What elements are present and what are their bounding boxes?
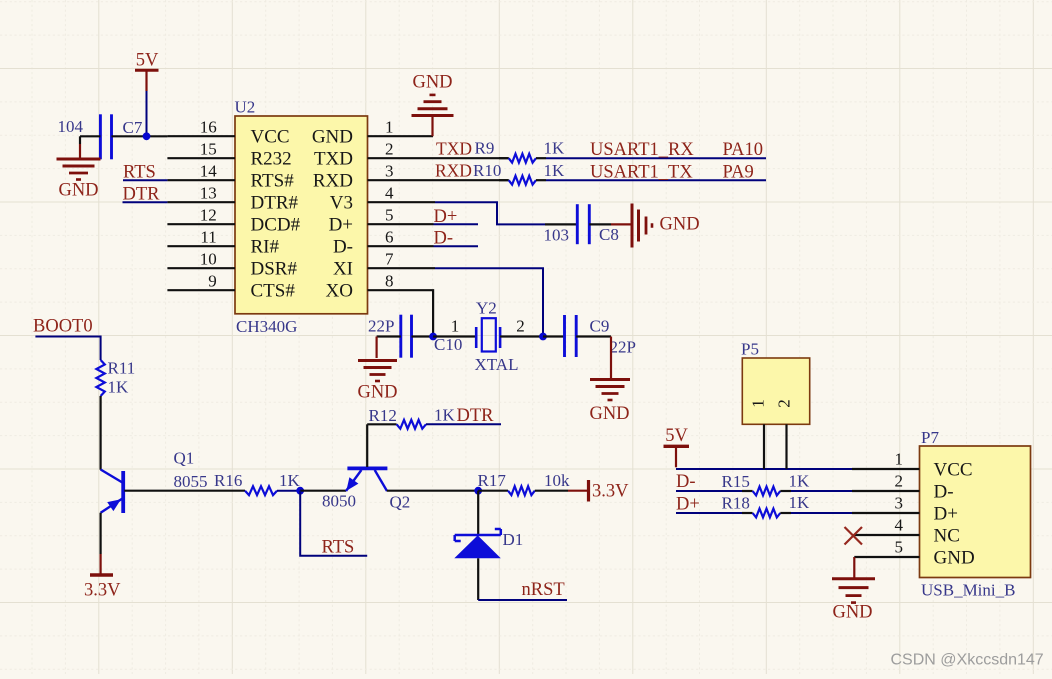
svg-text:R15: R15 (722, 472, 750, 491)
resistor R12 (369, 406, 456, 429)
wire D1 to nRST (478, 558, 567, 600)
svg-text:GND: GND (58, 181, 98, 201)
svg-text:2: 2 (385, 140, 394, 159)
svg-text:XTAL: XTAL (475, 355, 519, 374)
svg-text:P7: P7 (921, 428, 939, 447)
ground GND (left of C7) (57, 159, 101, 201)
svg-text:104: 104 (58, 117, 84, 136)
svg-text:Y2: Y2 (476, 299, 497, 318)
power 3.3V (bottom left) (84, 575, 121, 601)
svg-text:3: 3 (385, 162, 394, 181)
wire C7 to GND (79, 136, 81, 158)
svg-text:Q1: Q1 (174, 449, 195, 468)
svg-text:1: 1 (451, 317, 460, 336)
junction 5V/C7/U2 pin16 (143, 132, 151, 140)
power 5V (right) (664, 426, 690, 467)
svg-text:D1: D1 (503, 530, 524, 549)
svg-text:GND: GND (832, 603, 872, 623)
svg-text:D-: D- (333, 237, 353, 258)
svg-text:5: 5 (385, 206, 394, 225)
wire C10 to GND (376, 337, 378, 359)
svg-text:2: 2 (895, 472, 904, 491)
svg-text:9: 9 (208, 272, 217, 291)
svg-text:R16: R16 (214, 471, 242, 490)
svg-text:5: 5 (895, 538, 904, 557)
wire USART1_RX (R9 to PA10) (546, 157, 766, 159)
wire D- (434, 245, 479, 247)
P5 pin 2 (775, 399, 794, 469)
svg-text:D+: D+ (934, 504, 958, 525)
svg-text:3: 3 (895, 494, 904, 513)
svg-text:15: 15 (200, 140, 217, 159)
svg-text:8: 8 (385, 272, 394, 291)
capacitor C10 (368, 315, 462, 358)
svg-text:USB_Mini_B: USB_Mini_B (921, 581, 1015, 600)
wire RXD (U2 pin3 to R10) (435, 179, 509, 181)
svg-text:BOOT0: BOOT0 (33, 317, 93, 337)
svg-text:XI: XI (333, 259, 353, 280)
ground GND (below P7) (832, 579, 875, 623)
svg-text:D-: D- (934, 482, 954, 503)
transistor Q2 (322, 468, 410, 511)
resistor R9 (475, 139, 566, 163)
Y2 pin 1 (451, 317, 460, 336)
U2 pin 8 XO (326, 272, 433, 302)
svg-text:GND: GND (589, 404, 629, 424)
capacitor C7 (58, 114, 168, 159)
U2 pin 16 VCC (167, 118, 289, 148)
diode D1 zener (454, 491, 523, 559)
svg-text:103: 103 (544, 226, 570, 245)
wire USART1_TX (R10 to PA9) (546, 179, 766, 181)
P7 pin 1 VCC (852, 450, 973, 481)
wire R17 to 3.3V (535, 490, 588, 492)
svg-text:6: 6 (385, 228, 394, 247)
svg-text:CH340G: CH340G (236, 317, 297, 336)
net label D- (U2 pin6) (434, 229, 454, 249)
P7 pin 5 GND (854, 538, 974, 569)
svg-text:RXD: RXD (435, 161, 472, 181)
svg-text:TXD: TXD (314, 149, 353, 170)
svg-text:5V: 5V (136, 51, 159, 71)
svg-text:V3: V3 (330, 193, 353, 214)
svg-text:GND: GND (357, 383, 397, 403)
wire Q2 collector to R17 node (387, 490, 478, 492)
wire D+ to R18 (676, 512, 742, 514)
U2 pin 11 RI# (167, 228, 279, 258)
svg-text:RI#: RI# (251, 237, 280, 258)
net label D+ (right) (676, 495, 700, 515)
svg-text:D-: D- (676, 472, 696, 492)
svg-text:1: 1 (385, 118, 394, 137)
no-connect X (P7 pin 4) (845, 527, 863, 545)
net label RTS (U2 pin14) (123, 163, 156, 183)
U2 pin 6 D- (333, 228, 434, 258)
wire V3 to C8 (435, 202, 577, 224)
connector P7 body (920, 428, 1031, 600)
connector P5 body (741, 340, 810, 425)
resistor R17 (478, 471, 571, 495)
U2 pin 3 RXD (313, 162, 435, 192)
svg-text:1K: 1K (544, 161, 566, 180)
svg-text:VCC: VCC (934, 460, 973, 481)
resistor R18 (722, 493, 811, 517)
net label D+ (U2 pin5) (434, 207, 458, 227)
wire P7 GND (853, 557, 855, 578)
net label RTS (lower) (322, 538, 355, 558)
wire XI (U2 pin7 to crystal) (435, 268, 543, 336)
P7 pin 4 NC (854, 516, 960, 547)
wire C9 to GND (610, 337, 612, 380)
wire node to Q2 emitter (300, 490, 346, 492)
Y2 pin 2 (516, 317, 525, 336)
wire junction to C9 (543, 335, 565, 337)
U2 pin 10 DSR# (167, 250, 297, 280)
svg-text:Q2: Q2 (390, 493, 411, 512)
svg-text:CTS#: CTS# (251, 281, 296, 302)
wire R15 to P7 pin2 (791, 490, 852, 492)
ground GND (below C9) (589, 380, 630, 425)
net label D- (right) (676, 472, 696, 492)
wire C10 junction to crystal (433, 335, 476, 337)
svg-text:DTR#: DTR# (251, 193, 299, 214)
watermark (891, 652, 1044, 669)
svg-text:R18: R18 (722, 494, 750, 513)
ground GND (right of C8) (611, 204, 700, 248)
wire D- to R15 (676, 490, 742, 492)
svg-text:DCD#: DCD# (251, 215, 301, 236)
svg-text:PA10: PA10 (723, 140, 763, 160)
svg-text:1K: 1K (789, 493, 811, 512)
svg-text:GND: GND (934, 548, 975, 569)
svg-text:CSDN @Xkccsdn147: CSDN @Xkccsdn147 (891, 652, 1044, 669)
net label USART1_RX (590, 140, 694, 160)
transistor Q1 (101, 449, 208, 514)
U2 pin 1 GND (312, 118, 433, 148)
svg-text:3.3V: 3.3V (84, 581, 121, 601)
svg-text:1K: 1K (544, 139, 566, 158)
wire TXD (U2 pin2 to R9) (435, 157, 509, 159)
svg-text:12: 12 (200, 206, 217, 225)
wire 5V to C7 node (146, 91, 148, 136)
wire RTS drop (300, 491, 367, 556)
U2 pin 13 DTR# (167, 184, 298, 214)
junction R16/Q2/RTS (296, 487, 304, 495)
wire 5V to P7 pin1 (676, 468, 852, 470)
U2 pin 5 D+ (329, 206, 434, 236)
svg-text:GND: GND (660, 215, 700, 235)
svg-text:8050: 8050 (322, 492, 356, 511)
wire RTS (123, 179, 167, 181)
svg-text:R10: R10 (473, 161, 501, 180)
svg-text:R9: R9 (475, 139, 495, 158)
power 3.3V (right of R17) (589, 480, 630, 502)
wire Q1 emitter to 3.3V (99, 513, 101, 574)
net label BOOT0 (33, 317, 93, 337)
P7 pin 3 D+ (852, 494, 958, 525)
power 5V (top left) (135, 51, 159, 92)
wire Q1 base to R16 (124, 490, 245, 492)
resistor R15 (722, 472, 811, 496)
resistor R11 (96, 359, 135, 397)
svg-text:4: 4 (385, 184, 394, 203)
svg-text:C7: C7 (123, 118, 143, 137)
net label nRST (522, 580, 565, 600)
svg-text:10k: 10k (544, 471, 570, 490)
svg-text:TXD: TXD (436, 139, 472, 159)
U2 pin 4 V3 (330, 184, 435, 214)
crystal Y2 (475, 299, 519, 375)
ground GND (U2 pin 1) (412, 73, 454, 137)
wire R18 to P7 pin3 (791, 512, 852, 514)
svg-text:RTS: RTS (322, 538, 355, 558)
svg-text:RXD: RXD (313, 171, 353, 192)
svg-text:nRST: nRST (522, 580, 565, 600)
junction XO/C10/XTAL (429, 333, 437, 341)
svg-text:R232: R232 (251, 149, 292, 170)
U2 pin 14 RTS# (167, 162, 294, 192)
svg-text:R11: R11 (108, 359, 136, 378)
junction XI/XTAL/C9 (539, 333, 547, 341)
svg-text:11: 11 (200, 228, 216, 247)
net label RXD (435, 161, 472, 181)
svg-text:4: 4 (895, 516, 904, 535)
svg-text:10: 10 (200, 250, 217, 269)
svg-text:13: 13 (200, 184, 217, 203)
svg-text:D+: D+ (329, 215, 353, 236)
U2 pin 2 TXD (314, 140, 435, 170)
svg-text:R17: R17 (478, 471, 507, 490)
svg-text:16: 16 (200, 118, 217, 137)
svg-text:1: 1 (749, 399, 768, 408)
svg-text:GND: GND (312, 127, 353, 148)
U2 pin 15 R232 (167, 140, 291, 170)
svg-text:USART1_RX: USART1_RX (590, 140, 694, 160)
svg-text:C10: C10 (434, 335, 462, 354)
net label USART1_TX (590, 163, 693, 183)
P7 pin 2 D- (852, 472, 954, 503)
net label DTR (at R12) (457, 406, 495, 426)
svg-text:NC: NC (934, 526, 960, 547)
svg-text:14: 14 (200, 162, 218, 181)
wire BOOT0 (35, 337, 100, 361)
IC U2 CH340G body (235, 98, 368, 337)
svg-text:USART1_TX: USART1_TX (590, 163, 693, 183)
wire R11 to Q1 collector (99, 396, 101, 470)
U2 pin 9 CTS# (167, 272, 295, 302)
junction Q2/R17/D1 (474, 487, 482, 495)
capacitor C8 (544, 204, 619, 244)
svg-text:1K: 1K (789, 472, 811, 491)
svg-text:22P: 22P (610, 338, 636, 357)
svg-text:P5: P5 (741, 340, 759, 359)
U2 pin 7 XI (333, 250, 435, 280)
svg-text:22P: 22P (368, 317, 394, 336)
svg-text:1: 1 (895, 450, 904, 469)
P5 pin 1 (749, 399, 768, 469)
wire crystal to C9 junction (500, 335, 543, 337)
resistor R16 (214, 471, 301, 495)
svg-text:2: 2 (516, 317, 525, 336)
svg-text:5V: 5V (665, 426, 688, 446)
svg-text:R12: R12 (369, 406, 397, 425)
svg-text:DSR#: DSR# (251, 259, 298, 280)
svg-text:U2: U2 (235, 98, 256, 117)
svg-text:GND: GND (412, 73, 452, 93)
net label PA10 (723, 140, 763, 160)
wire Q2 base to R12 (367, 424, 396, 467)
svg-text:1K: 1K (434, 406, 456, 425)
net label DTR (U2 pin13) (123, 185, 161, 205)
net label TXD (436, 139, 472, 159)
svg-text:PA9: PA9 (723, 163, 754, 183)
svg-text:C8: C8 (599, 225, 619, 244)
capacitor C9 (565, 315, 636, 357)
svg-text:3.3V: 3.3V (592, 482, 629, 502)
svg-text:VCC: VCC (251, 127, 290, 148)
svg-text:1K: 1K (279, 471, 301, 490)
svg-text:7: 7 (385, 250, 394, 269)
wire DTR (R12 right) (426, 423, 501, 425)
svg-text:8055: 8055 (174, 472, 208, 491)
resistor R10 (473, 161, 565, 185)
wire DTR (123, 201, 168, 203)
svg-text:DTR: DTR (457, 406, 495, 426)
svg-text:XO: XO (326, 281, 353, 302)
svg-text:2: 2 (775, 399, 794, 408)
wire R16 to node (277, 490, 300, 492)
net label PA9 (723, 163, 754, 183)
ground GND (below C10) (357, 361, 397, 403)
svg-text:D+: D+ (676, 495, 700, 515)
svg-text:RTS#: RTS# (251, 171, 295, 192)
U2 pin 12 DCD# (167, 206, 300, 236)
svg-text:C9: C9 (590, 317, 610, 336)
svg-text:1K: 1K (108, 378, 130, 397)
wire D+ (434, 223, 479, 225)
wire XO (U2 pin8 to crystal) (432, 290, 434, 336)
